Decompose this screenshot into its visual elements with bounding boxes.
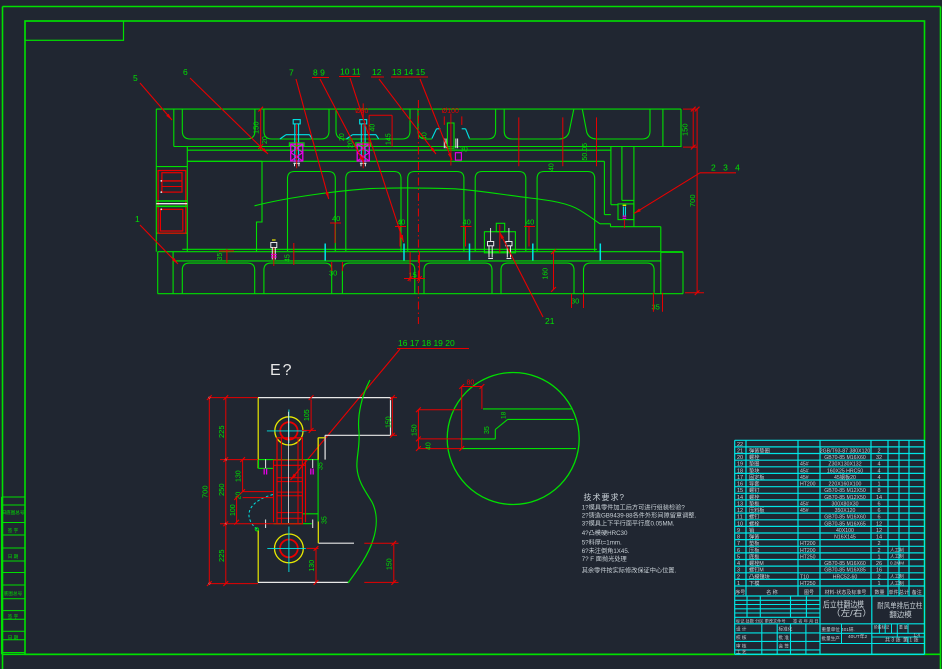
svg-text:签 字: 签 字 xyxy=(8,527,19,533)
svg-text:耐风单排后立柱: 耐风单排后立柱 xyxy=(877,600,922,610)
svg-text:6: 6 xyxy=(877,515,880,521)
svg-text:1: 1 xyxy=(737,581,740,587)
svg-text:45#: 45# xyxy=(800,462,809,468)
svg-text:总计: 总计 xyxy=(899,589,909,596)
svg-text:350X120: 350X120 xyxy=(835,508,856,514)
svg-text:重 量: 重 量 xyxy=(899,625,908,630)
svg-text:35: 35 xyxy=(317,462,324,470)
svg-text:固定板: 固定板 xyxy=(749,473,765,481)
svg-text:45#: 45# xyxy=(800,468,809,474)
svg-text:HT200: HT200 xyxy=(800,548,816,554)
svg-text:30: 30 xyxy=(329,269,337,278)
svg-text:5: 5 xyxy=(133,73,138,83)
svg-text:30: 30 xyxy=(571,297,579,306)
svg-text:6: 6 xyxy=(877,508,880,514)
svg-text:700: 700 xyxy=(688,194,697,207)
svg-text:18: 18 xyxy=(501,411,508,419)
svg-text:130: 130 xyxy=(309,560,316,572)
svg-text:45#: 45# xyxy=(800,475,809,481)
svg-text:审 核: 审 核 xyxy=(736,643,747,650)
svg-text:单件: 单件 xyxy=(888,589,898,596)
svg-text:3?模具上下平行面平行度0.05MM.: 3?模具上下平行面平行度0.05MM. xyxy=(582,520,675,528)
svg-text:220X160X100: 220X160X100 xyxy=(829,482,862,488)
svg-text:2: 2 xyxy=(877,448,880,454)
svg-text:第 1 张: 第 1 张 xyxy=(903,637,919,644)
svg-text:重量单位 401研.: 重量单位 401研. xyxy=(822,626,855,633)
svg-text:GB70-85 M16X60: GB70-85 M16X60 xyxy=(824,515,866,521)
svg-text:14: 14 xyxy=(737,495,743,501)
svg-text:160: 160 xyxy=(543,268,550,280)
svg-text:底板: 底板 xyxy=(749,552,760,560)
svg-text:10: 10 xyxy=(737,521,743,527)
svg-text:700: 700 xyxy=(201,485,210,498)
svg-text:3: 3 xyxy=(737,568,740,574)
svg-text:35: 35 xyxy=(484,426,491,434)
svg-text:16: 16 xyxy=(876,568,882,574)
svg-text:人工制: 人工制 xyxy=(890,573,904,580)
svg-text:翻边模: 翻边模 xyxy=(889,609,912,619)
svg-text:40: 40 xyxy=(332,214,340,223)
svg-text:150: 150 xyxy=(385,416,392,428)
svg-text:GB70-85 M16X85: GB70-85 M16X85 xyxy=(824,568,866,574)
svg-text:Z30X130X132: Z30X130X132 xyxy=(828,462,861,468)
svg-text:会 签: 会 签 xyxy=(779,643,790,650)
svg-text:40: 40 xyxy=(426,442,433,450)
svg-text:阶段标记: 阶段标记 xyxy=(874,625,889,630)
svg-text:20: 20 xyxy=(348,140,355,148)
svg-text:1: 1 xyxy=(877,581,880,587)
svg-text:底图总号: 底图总号 xyxy=(4,590,23,597)
svg-text:设 计: 设 计 xyxy=(736,626,747,633)
svg-text:16 17 18 19 20: 16 17 18 19 20 xyxy=(398,338,455,348)
svg-text:18: 18 xyxy=(737,468,743,474)
svg-text:14: 14 xyxy=(876,495,882,501)
svg-text:压板: 压板 xyxy=(749,546,760,554)
svg-text:15: 15 xyxy=(737,488,743,494)
svg-text:批 准: 批 准 xyxy=(779,634,790,641)
svg-text:5?料厚t=1mm.: 5?料厚t=1mm. xyxy=(582,539,622,547)
svg-text:13: 13 xyxy=(737,501,743,507)
svg-text:销: 销 xyxy=(749,526,754,534)
svg-text:导套: 导套 xyxy=(749,480,760,488)
svg-text:HT200: HT200 xyxy=(800,541,816,547)
svg-text:标准化: 标准化 xyxy=(779,626,793,633)
svg-text:26: 26 xyxy=(876,561,882,567)
svg-text:GB70-85 M16X60: GB70-85 M16X60 xyxy=(824,561,866,567)
svg-text:45#: 45# xyxy=(800,501,809,507)
svg-text:垫板: 垫板 xyxy=(749,499,760,507)
svg-text:2: 2 xyxy=(877,548,880,554)
svg-text:7: 7 xyxy=(737,541,740,547)
svg-text:4: 4 xyxy=(737,561,740,567)
svg-text:50.05: 50.05 xyxy=(582,143,589,161)
svg-text:5: 5 xyxy=(737,554,740,560)
svg-text:图号: 图号 xyxy=(804,590,814,596)
svg-text:22: 22 xyxy=(737,442,743,448)
svg-text:2?铸造GB9439-88各件外形间隙留意调整.: 2?铸造GB9439-88各件外形间隙留意调整. xyxy=(582,512,697,520)
svg-text:12: 12 xyxy=(737,508,743,514)
svg-text:21: 21 xyxy=(737,448,743,454)
svg-text:工 艺: 工 艺 xyxy=(736,650,747,655)
svg-text:（左/右）: （左/右） xyxy=(831,608,872,618)
svg-text:45#: 45# xyxy=(800,508,809,514)
svg-text:160X25 HRC50: 160X25 HRC50 xyxy=(827,468,863,474)
svg-text:N16X145: N16X145 xyxy=(834,535,856,541)
svg-text:GB70-85 M12X50: GB70-85 M12X50 xyxy=(824,488,866,494)
svg-text:1: 1 xyxy=(877,554,880,560)
svg-text:20: 20 xyxy=(339,133,346,141)
svg-text:45钢板20: 45钢板20 xyxy=(834,473,856,481)
svg-text:13 14 15: 13 14 15 xyxy=(392,67,425,77)
svg-text:备注: 备注 xyxy=(912,589,922,596)
svg-text:2: 2 xyxy=(737,574,740,580)
svg-text:8: 8 xyxy=(877,488,880,494)
svg-text:19: 19 xyxy=(737,462,743,468)
svg-text:6: 6 xyxy=(737,548,740,554)
svg-text:145: 145 xyxy=(385,133,392,145)
svg-text:批量生产: 批量生产 xyxy=(822,635,841,642)
svg-text:150: 150 xyxy=(387,558,394,570)
svg-text:9: 9 xyxy=(737,528,740,534)
svg-text:21: 21 xyxy=(545,316,555,326)
svg-text:螺栓: 螺栓 xyxy=(749,453,760,461)
svg-text:12: 12 xyxy=(372,67,382,77)
svg-text:4: 4 xyxy=(877,468,880,474)
svg-text:2: 2 xyxy=(877,574,880,580)
svg-text:40: 40 xyxy=(549,163,556,171)
svg-text:1: 1 xyxy=(877,482,880,488)
svg-text:2GB/T93-87 380X120: 2GB/T93-87 380X120 xyxy=(820,448,871,454)
svg-text:17: 17 xyxy=(737,475,743,481)
svg-text:HT250: HT250 xyxy=(800,581,816,587)
svg-text:150: 150 xyxy=(252,121,261,134)
svg-text:Ø100: Ø100 xyxy=(442,108,459,115)
svg-text:10 11: 10 11 xyxy=(340,67,361,77)
svg-text:4?凸模硬HRC30: 4?凸模硬HRC30 xyxy=(582,529,628,537)
svg-text:0.2MM: 0.2MM xyxy=(890,561,904,566)
svg-text:序号: 序号 xyxy=(735,589,745,596)
svg-text:300X80X30: 300X80X30 xyxy=(831,501,858,507)
svg-text:人工制: 人工制 xyxy=(890,553,904,560)
svg-text:技术要求?: 技术要求? xyxy=(584,492,625,502)
svg-text:签 字: 签 字 xyxy=(8,613,19,619)
svg-text:其余零件按实际修改保证中心位置.: 其余零件按实际修改保证中心位置. xyxy=(582,567,677,575)
svg-text:压料板: 压料板 xyxy=(749,506,765,514)
svg-text:12: 12 xyxy=(876,528,882,534)
svg-text:7? F 面抛光处理: 7? F 面抛光处理 xyxy=(582,555,627,563)
svg-text:8: 8 xyxy=(737,535,740,541)
svg-text:GB70-85 M12X50: GB70-85 M12X50 xyxy=(824,495,866,501)
svg-text:80: 80 xyxy=(467,380,475,387)
svg-text:35: 35 xyxy=(217,253,224,261)
svg-text:6: 6 xyxy=(877,501,880,507)
svg-text:弹簧: 弹簧 xyxy=(749,533,759,541)
svg-text:35: 35 xyxy=(322,516,329,524)
svg-text:105: 105 xyxy=(304,409,311,421)
svg-text:螺栓M: 螺栓M xyxy=(749,559,764,567)
svg-text:HRC52-60: HRC52-60 xyxy=(833,574,858,580)
svg-text:凸模镶块: 凸模镶块 xyxy=(749,572,771,580)
svg-text:数量: 数量 xyxy=(874,589,884,596)
svg-text:人工制: 人工制 xyxy=(890,547,904,554)
svg-text:11: 11 xyxy=(737,515,743,521)
svg-text:130: 130 xyxy=(236,470,243,482)
svg-text:垫块: 垫块 xyxy=(749,466,760,474)
svg-text:4: 4 xyxy=(877,475,880,481)
svg-text:150: 150 xyxy=(411,424,418,436)
svg-text:40X100: 40X100 xyxy=(836,528,854,534)
svg-text:人工制: 人工制 xyxy=(890,580,904,587)
svg-text:签 名 年 月 日: 签 名 年 月 日 xyxy=(793,618,819,625)
svg-text:100: 100 xyxy=(230,504,237,516)
svg-text:垫圈: 垫圈 xyxy=(749,460,759,468)
svg-text:32: 32 xyxy=(876,455,882,461)
svg-text:250: 250 xyxy=(217,483,226,496)
svg-text:12: 12 xyxy=(876,521,882,527)
svg-text:7: 7 xyxy=(289,68,294,78)
svg-text:HT250: HT250 xyxy=(800,554,816,560)
svg-text:下模: 下模 xyxy=(749,579,759,587)
svg-text:GB70-85 M16X65: GB70-85 M16X65 xyxy=(824,521,866,527)
svg-text:弹簧垫圈: 弹簧垫圈 xyxy=(749,446,770,454)
svg-text:螺栓: 螺栓 xyxy=(749,519,760,527)
svg-text:14: 14 xyxy=(876,535,882,541)
svg-text:16: 16 xyxy=(737,482,743,488)
svg-text:20: 20 xyxy=(262,136,269,144)
svg-text:E?: E? xyxy=(270,362,294,379)
svg-text:2 3 4: 2 3 4 xyxy=(711,163,742,173)
svg-text:共 3 张: 共 3 张 xyxy=(885,637,901,644)
svg-text:40: 40 xyxy=(370,124,377,132)
svg-text:35: 35 xyxy=(652,303,660,312)
svg-text:6?未注倒角1X45.: 6?未注倒角1X45. xyxy=(582,547,630,555)
svg-text:GB70-85 M16X60: GB70-85 M16X60 xyxy=(824,455,866,461)
svg-text:名 称: 名 称 xyxy=(766,589,777,596)
svg-text:T10: T10 xyxy=(800,574,809,580)
svg-text:150: 150 xyxy=(681,123,690,136)
svg-text:垫板: 垫板 xyxy=(749,539,760,547)
svg-text:螺钉M: 螺钉M xyxy=(749,566,764,574)
svg-text:225: 225 xyxy=(217,425,226,438)
svg-text:螺栓: 螺栓 xyxy=(749,493,760,501)
svg-text:材料·状态及标准号: 材料·状态及标准号 xyxy=(825,589,867,596)
svg-text:螺钉: 螺钉 xyxy=(749,513,759,521)
svg-text:旧底图总号: 旧底图总号 xyxy=(2,509,25,516)
svg-text:4: 4 xyxy=(877,462,880,468)
svg-text:40: 40 xyxy=(463,218,471,227)
svg-text:20: 20 xyxy=(737,455,743,461)
svg-text:225: 225 xyxy=(217,549,226,562)
svg-text:8 9: 8 9 xyxy=(313,68,325,78)
svg-text:螺钉: 螺钉 xyxy=(749,486,759,494)
svg-text:标记 处数 分区 更改文件号: 标记 处数 分区 更改文件号 xyxy=(736,618,786,625)
svg-text:1?模具零件加工后方可进行组装检验?: 1?模具零件加工后方可进行组装检验? xyxy=(582,504,686,512)
svg-text:校 核: 校 核 xyxy=(736,634,747,641)
svg-text:2: 2 xyxy=(877,541,880,547)
svg-text:40UT年2: 40UT年2 xyxy=(848,633,868,640)
svg-text:1: 1 xyxy=(135,214,140,224)
svg-text:40: 40 xyxy=(526,218,534,227)
svg-text:45: 45 xyxy=(285,254,292,262)
svg-text:30: 30 xyxy=(460,146,468,153)
svg-text:6: 6 xyxy=(183,67,188,77)
svg-text:HT200: HT200 xyxy=(800,482,816,488)
